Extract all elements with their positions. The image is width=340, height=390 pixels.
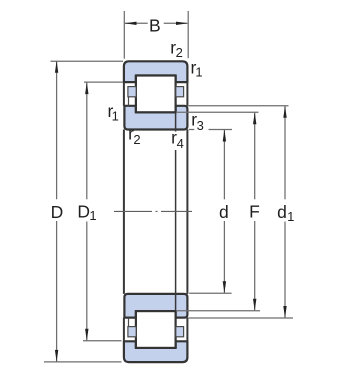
svg-text:2: 2 xyxy=(133,132,140,147)
svg-text:4: 4 xyxy=(177,136,184,151)
svg-text:d: d xyxy=(219,202,229,222)
svg-text:1: 1 xyxy=(195,64,202,79)
svg-text:D: D xyxy=(77,201,90,221)
svg-text:1: 1 xyxy=(112,108,119,123)
svg-text:d: d xyxy=(277,202,287,222)
svg-text:3: 3 xyxy=(197,118,204,133)
svg-text:2: 2 xyxy=(176,45,183,60)
svg-text:F: F xyxy=(249,202,260,222)
svg-text:1: 1 xyxy=(89,208,96,223)
svg-text:1: 1 xyxy=(287,209,294,224)
svg-text:B: B xyxy=(149,16,161,36)
svg-text:D: D xyxy=(51,202,64,222)
